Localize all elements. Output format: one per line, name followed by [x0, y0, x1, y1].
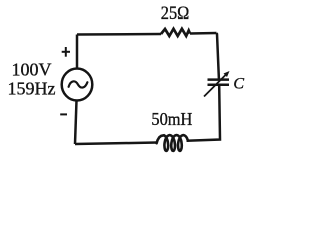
capacitor C upper plate: [208, 78, 230, 81]
wire top-left horizontal: [77, 33, 161, 36]
inductor L 50mH coil: [157, 135, 188, 151]
wire left vertical lower (corner to source): [75, 101, 77, 145]
AC source V1 circle: [62, 69, 93, 101]
svg-text:25Ω: 25Ω: [161, 3, 190, 24]
wire bottom-left horizontal: [75, 143, 157, 145]
AC source sine symbol: [69, 81, 88, 87]
wire top-right horizontal: [190, 32, 217, 35]
wire left vertical upper (source to corner): [76, 35, 79, 69]
source minus terminal: [60, 113, 67, 115]
svg-text:159Hz: 159Hz: [8, 79, 56, 99]
svg-text:C: C: [233, 75, 244, 92]
capacitor C lower plate: [208, 83, 230, 86]
wire right vertical lower (capacitor to corner): [187, 86, 221, 141]
svg-text:50mH: 50mH: [151, 109, 192, 129]
source plus terminal: [62, 47, 70, 57]
svg-text:100V: 100V: [12, 60, 52, 80]
variable capacitor arrow: [204, 75, 226, 97]
resistor R 25ohm: [161, 29, 190, 36]
wire right vertical upper (corner to capacitor): [217, 33, 219, 79]
